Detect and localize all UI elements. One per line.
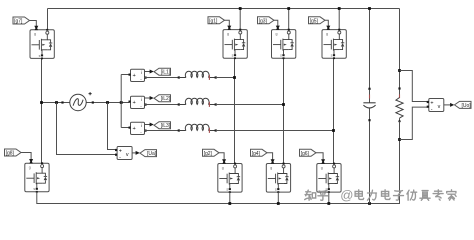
goto tag Uo <box>455 101 472 109</box>
wire L3 to phase C node <box>216 130 334 132</box>
wire bus to I3 input <box>121 127 129 129</box>
svg-text:[g3]: [g3] <box>259 19 268 25</box>
from tag g6 <box>300 149 317 157</box>
svg-text:[iL1]: [iL1] <box>161 70 171 76</box>
from tag g3 <box>258 17 275 25</box>
MOSFET Q4 <box>266 160 290 193</box>
wire Q4 source drop <box>277 192 279 203</box>
svg-text:[Uo]: [Uo] <box>462 103 472 109</box>
voltage measurement Ua <box>115 147 132 161</box>
wire L1 to phase A node <box>216 77 235 79</box>
svg-text:[g6]: [g6] <box>301 151 310 157</box>
wire rail drop to Q5 drain <box>338 9 340 32</box>
wire g2 to gate <box>219 153 226 164</box>
svg-text:[g5]: [g5] <box>310 19 319 25</box>
node rail-C1 <box>368 7 371 10</box>
MOSFET Q5 <box>322 26 346 59</box>
inductor L1 <box>178 71 217 80</box>
wire Ua output <box>132 151 140 155</box>
wire Vo minus path <box>400 107 428 139</box>
wire rail drop to Q1 drain <box>239 9 241 32</box>
voltage measurement Vo <box>427 99 444 113</box>
wire g3 to gate <box>274 20 280 30</box>
node phase C <box>332 129 335 132</box>
from tag g1 <box>208 17 225 25</box>
wire measurement bus vertical <box>120 75 122 128</box>
wire g7 to gate <box>30 21 39 31</box>
svg-text:[g4]: [g4] <box>252 151 261 157</box>
wire I3 i-output <box>145 123 154 127</box>
node Ua plus tap <box>106 101 109 104</box>
node Ua minus tap <box>55 101 58 104</box>
from tag g2 <box>203 149 220 157</box>
MOSFET Q7 <box>30 27 54 60</box>
wire g4 to gate <box>267 153 275 164</box>
goto tag Ua <box>140 150 157 158</box>
goto tag iL1 <box>154 68 171 76</box>
svg-text:[g8]: [g8] <box>6 151 15 157</box>
node rail-Q1 <box>239 7 242 10</box>
svg-text:[g1]: [g1] <box>209 19 218 25</box>
wire Vo output <box>444 103 455 107</box>
wire rail drop to Q3 drain <box>288 9 290 32</box>
wire Q6 source drop <box>328 192 330 203</box>
MOSFET Q6 <box>317 160 341 193</box>
wire AC source line <box>42 102 130 104</box>
wire rail corner down to resistor R1 branch <box>399 9 401 89</box>
wire I3 out to L3 <box>145 130 179 132</box>
MOSFET Q3 <box>272 26 296 59</box>
node C1-rail <box>368 202 371 205</box>
AC voltage source V1 <box>61 92 93 111</box>
from tag g5 <box>309 17 326 25</box>
resistor R1 <box>396 87 403 204</box>
wire left leg vertical (Q7 source to Q8 drain) <box>41 58 43 163</box>
wire g5 to gate <box>325 20 330 30</box>
wire I1 out to L1 <box>145 77 179 79</box>
svg-text:[Ua]: [Ua] <box>147 151 157 157</box>
wire Ua minus path <box>57 103 116 155</box>
wire I2 out to L2 <box>145 104 179 106</box>
node rail-Q3 <box>287 7 290 10</box>
wire phase C vertical <box>333 58 335 163</box>
wire top DC+ rail <box>48 8 400 10</box>
inductor L3 <box>178 124 217 133</box>
wire Q8 source to bottom rail <box>37 192 400 204</box>
wire rail drop to capacitor C1 <box>369 9 371 89</box>
wire I1 i-output <box>145 70 154 74</box>
current measurement I3 <box>129 122 147 134</box>
watermark 知乎 @电力电子仿真专家 <box>305 190 328 200</box>
node rail-Q5 <box>338 7 341 10</box>
capacitor C1 <box>363 88 375 204</box>
wire I2 i-output <box>145 96 154 100</box>
goto tag iL3 <box>154 122 171 130</box>
from tag g4 <box>251 149 268 157</box>
svg-text:[g2]: [g2] <box>204 151 213 157</box>
wire phase A vertical <box>234 58 236 163</box>
wire phase B vertical <box>283 58 285 163</box>
svg-text:[g7]: [g7] <box>14 19 23 25</box>
wire rail drop to Q7 drain <box>47 9 49 32</box>
wire Vo plus path <box>400 71 428 102</box>
node phase B <box>282 103 285 106</box>
node Q6-rail <box>327 202 330 205</box>
current measurement I2 <box>129 96 147 108</box>
MOSFET Q1 <box>223 26 247 59</box>
node R1 top tap <box>398 69 401 72</box>
wire L2 to phase B node <box>216 104 284 106</box>
svg-text:[iL3]: [iL3] <box>161 123 171 129</box>
node Q2-rail <box>228 202 231 205</box>
goto tag iL2 <box>154 95 171 103</box>
node measure bus <box>120 101 123 104</box>
node source-leftleg <box>40 101 43 104</box>
node R1 bottom tap <box>398 138 401 141</box>
wire Ua plus path <box>108 103 116 150</box>
current measurement I1 <box>129 69 147 81</box>
wire g8 to gate <box>21 153 33 164</box>
wire g6 to gate <box>316 153 325 164</box>
wire bus to I1 input <box>121 74 129 76</box>
MOSFET Q8 <box>25 160 49 193</box>
from tag g7 <box>13 17 30 25</box>
svg-text:[iL2]: [iL2] <box>161 96 171 102</box>
wire g1 to gate <box>225 20 232 30</box>
MOSFET Q2 <box>218 160 242 193</box>
from tag g8 <box>5 149 22 157</box>
wire Q2 source drop <box>229 192 231 203</box>
node phase A <box>233 76 236 79</box>
node Q4-rail <box>277 202 280 205</box>
inductor L2 <box>178 98 217 107</box>
svg-text:@: @ <box>340 188 353 203</box>
